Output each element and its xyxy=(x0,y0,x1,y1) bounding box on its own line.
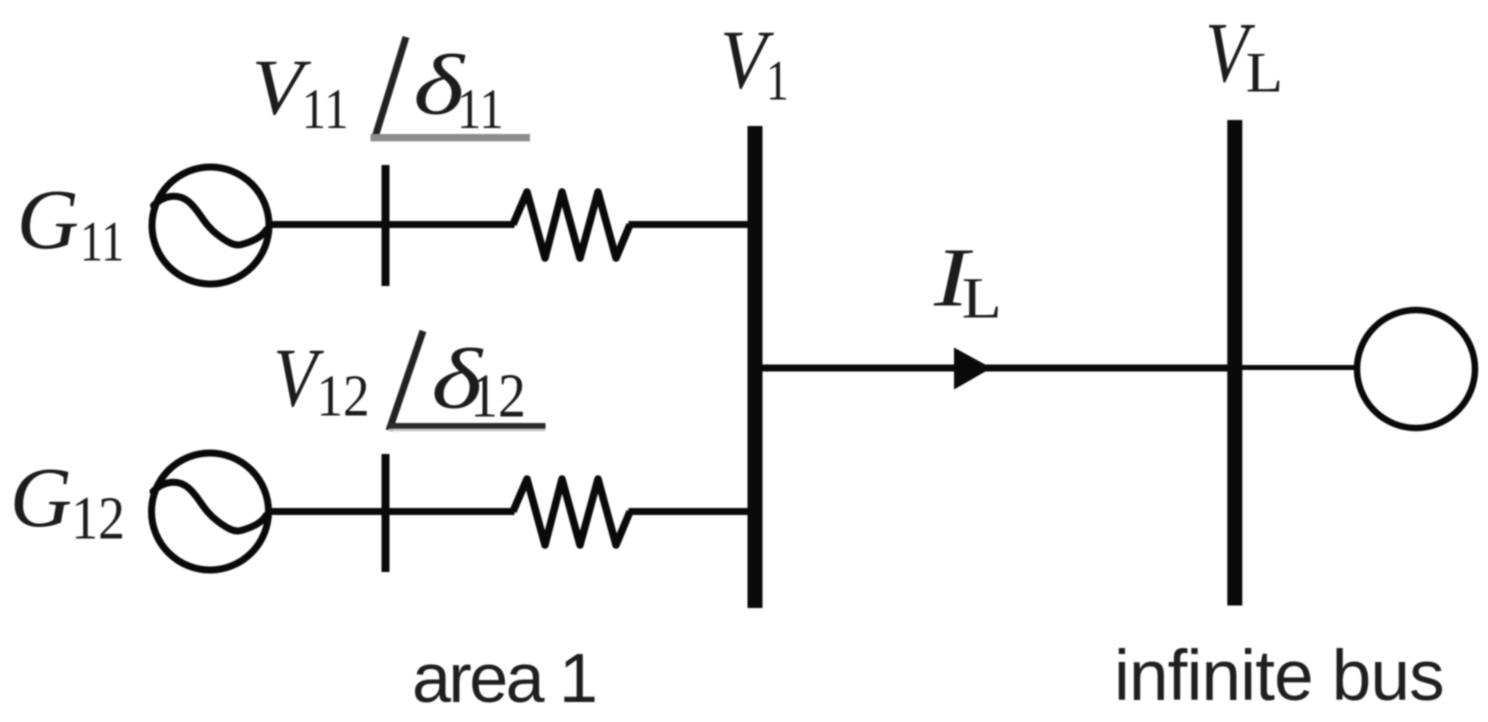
arrowhead I_L xyxy=(954,348,992,390)
wire gen G12 to bus V1 xyxy=(266,508,515,515)
svg-text:11: 11 xyxy=(80,211,124,274)
node tick V12 xyxy=(382,454,390,572)
resistor R2 xyxy=(513,479,630,545)
bus VL (infinite bus) xyxy=(1227,120,1242,606)
svg-text:area 1: area 1 xyxy=(412,639,595,717)
svg-text:12: 12 xyxy=(317,364,370,429)
generator G11 xyxy=(152,167,269,284)
svg-text:12: 12 xyxy=(71,485,125,552)
label V1 xyxy=(720,13,789,113)
node tick V11 xyxy=(382,165,390,286)
svg-text:infinite bus: infinite bus xyxy=(1114,637,1444,716)
wire gen G11 to bus V1 xyxy=(266,221,515,228)
label G12 xyxy=(10,449,125,552)
resistor R1 xyxy=(513,192,630,258)
wire I_L from bus V1 to bus VL xyxy=(762,365,1228,372)
label VL xyxy=(1205,6,1283,105)
svg-text:G: G xyxy=(10,449,72,545)
wire bus VL to load xyxy=(1242,365,1358,370)
label I_L xyxy=(933,230,1002,330)
svg-text:11: 11 xyxy=(457,78,504,140)
svg-text:12: 12 xyxy=(470,361,526,430)
label V12 angle delta12 xyxy=(273,330,545,431)
svg-text:L: L xyxy=(962,267,1002,331)
generator G12 xyxy=(152,453,269,570)
svg-text:11: 11 xyxy=(302,78,349,140)
label G11 xyxy=(17,171,124,274)
svg-text:L: L xyxy=(1246,40,1283,104)
svg-text:G: G xyxy=(17,171,79,267)
load circle (infinite bus machine) xyxy=(1357,310,1475,428)
bus V1 xyxy=(748,126,763,608)
svg-text:1: 1 xyxy=(766,50,789,113)
label V11 angle delta11 xyxy=(252,37,530,141)
